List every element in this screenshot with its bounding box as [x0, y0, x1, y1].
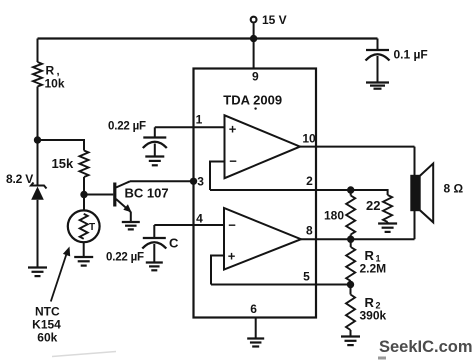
- wire node A to 15k: [38, 140, 85, 151]
- label BC 107: [125, 186, 169, 201]
- label 0.1 µF: [394, 48, 428, 62]
- label TDA 2009: [223, 93, 282, 108]
- wire node A to zener: [37, 140, 39, 186]
- svg-text:+: +: [228, 249, 236, 264]
- wire pin 5 run: [211, 284, 350, 286]
- wire top supply rail: [38, 37, 378, 39]
- label 0.22 µF bottom: [106, 252, 144, 264]
- wire pin 8 run: [301, 238, 415, 240]
- node supply junction: [250, 35, 257, 42]
- ground zener: [28, 268, 47, 277]
- wire R1 stub bottom: [350, 281, 352, 285]
- node pin 8 junction: [347, 236, 354, 243]
- svg-text:10: 10: [302, 132, 316, 146]
- svg-text:15k: 15k: [52, 156, 74, 171]
- label 8.2 V: [6, 172, 33, 186]
- arrow NTC pointer: [51, 247, 70, 302]
- svg-text:0.22 µF: 0.22 µF: [106, 252, 144, 264]
- wire C2 stem: [153, 225, 155, 238]
- transistor Q1 BC 107: [115, 181, 132, 222]
- svg-text:2.2M: 2.2M: [360, 262, 387, 276]
- label pin 10: [302, 132, 316, 146]
- resistor R3 10k: [33, 62, 42, 87]
- label 15 V: [262, 13, 287, 27]
- scan smudge bottom: [52, 352, 116, 357]
- node A junction: [34, 136, 41, 143]
- op-amp A1 triangle: [225, 115, 301, 178]
- wire rail to C4: [377, 39, 379, 50]
- wire zener to ground: [37, 200, 39, 268]
- svg-text:5: 5: [303, 270, 310, 284]
- ground C1: [145, 157, 164, 166]
- wire A2 plus feedback: [211, 256, 224, 285]
- svg-text:8: 8: [306, 224, 313, 238]
- svg-text:TDA 2009: TDA 2009: [223, 93, 282, 108]
- label 15k: [52, 156, 74, 171]
- ground 0.1 µF: [366, 83, 389, 89]
- wire C1 stem: [154, 127, 156, 137]
- label 60k: [37, 331, 57, 345]
- watermark SeekIC.com: [379, 338, 473, 356]
- wire R1 stub top: [350, 239, 352, 247]
- label 0.22 µF top: [108, 121, 146, 133]
- svg-text:3: 3: [197, 175, 204, 189]
- label R1: [365, 248, 381, 264]
- wire node B to thermistor: [83, 195, 85, 211]
- svg-text:0.22 µF: 0.22 µF: [108, 121, 146, 133]
- wire 180 stub top: [350, 190, 352, 196]
- label 22: [366, 198, 380, 213]
- wire R2 stub top: [350, 285, 352, 295]
- label NTC: [35, 305, 60, 319]
- svg-text:9: 9: [252, 70, 259, 84]
- label pin 1: [196, 113, 203, 127]
- resistor R1 2.2M: [346, 247, 355, 281]
- wire 22 stub: [387, 222, 389, 224]
- node pin 5 junction: [347, 281, 354, 288]
- wire pin 2 run: [210, 189, 388, 191]
- svg-text:8 Ω: 8 Ω: [444, 182, 464, 196]
- svg-text:NTC: NTC: [35, 305, 60, 319]
- svg-text:1: 1: [196, 113, 203, 127]
- label R2: [365, 295, 381, 311]
- wire rail corner down-left: [37, 39, 39, 63]
- wire pin 6 stem: [255, 318, 257, 339]
- label pin 8: [306, 224, 313, 238]
- label pin 6: [250, 302, 257, 316]
- label K154: [32, 318, 61, 332]
- svg-text:180: 180: [324, 209, 344, 223]
- wire R3 to node A: [37, 87, 39, 141]
- resistor 22: [383, 195, 392, 222]
- wire node B to base: [84, 194, 113, 196]
- diode D1 zener 8.2V: [31, 183, 47, 200]
- label 390k: [360, 309, 387, 323]
- wire C2 to ground: [153, 244, 155, 263]
- wire 15k to node B: [83, 177, 85, 195]
- svg-text:−: −: [229, 154, 237, 169]
- thermistor NTC T1: [68, 210, 100, 242]
- wire supply to pin 9: [253, 39, 255, 69]
- label C: [169, 236, 179, 251]
- label pin 5: [303, 270, 310, 284]
- svg-text:SeekIC.com: SeekIC.com: [379, 338, 473, 356]
- resistor 15k: [80, 151, 89, 178]
- speck under label: [254, 107, 256, 109]
- node pin 3 junction: [190, 178, 197, 185]
- ground R2: [341, 337, 360, 346]
- ground C2: [146, 263, 163, 271]
- resistor R2 390k: [346, 295, 355, 331]
- label 10k: [45, 77, 65, 91]
- node B junction: [80, 191, 87, 198]
- wire C1 to ground: [154, 144, 156, 157]
- label 180: [324, 209, 344, 223]
- wire C4 to ground: [377, 56, 379, 83]
- svg-text:0.1 µF: 0.1 µF: [394, 48, 428, 62]
- op-amp A2 triangle: [224, 208, 301, 270]
- wire A1 minus feedback: [210, 162, 225, 191]
- svg-text:R: R: [46, 64, 55, 78]
- svg-text:K154: K154: [32, 318, 61, 332]
- svg-text:2: 2: [306, 174, 313, 188]
- svg-text:15 V: 15 V: [262, 13, 287, 27]
- wire C2 to pin 4: [154, 224, 224, 226]
- wire speaker vertical: [414, 147, 416, 240]
- ground pin 6: [247, 339, 264, 347]
- terminal 15 V: [251, 17, 257, 23]
- watermark mark: [378, 357, 386, 360]
- resistor 180: [346, 196, 355, 235]
- label 8 ohm: [444, 182, 464, 196]
- wire thermistor to ground: [83, 242, 85, 257]
- svg-text:60k: 60k: [37, 331, 57, 345]
- svg-text:4: 4: [196, 212, 203, 226]
- capacitor C2 0.22 µF: [142, 238, 166, 249]
- node pin 2 junction: [347, 186, 354, 193]
- ground emitter: [122, 222, 140, 229]
- wire 180 stub bottom: [350, 235, 352, 240]
- wire 22 branch: [351, 190, 388, 195]
- wire R2 to ground: [350, 330, 352, 337]
- svg-text:390k: 390k: [360, 309, 387, 323]
- svg-text:10k: 10k: [45, 77, 65, 91]
- capacitor C1 0.22 µF: [143, 138, 167, 149]
- op-amp U1 TDA 2009 package box: [194, 69, 317, 318]
- ground thermistor: [74, 257, 93, 266]
- wire collector to pin 3: [130, 180, 194, 182]
- svg-text:8.2 V: 8.2 V: [6, 172, 33, 186]
- label pin 4: [196, 212, 203, 226]
- svg-text:+: +: [229, 122, 237, 137]
- wire pin 10 run: [300, 146, 415, 148]
- label pin 9: [252, 70, 259, 84]
- svg-text:6: 6: [250, 302, 257, 316]
- label R3: [46, 64, 60, 78]
- label pin 3: [197, 175, 204, 189]
- svg-text:C: C: [169, 236, 179, 251]
- speaker LS1 8 ohm: [410, 164, 433, 223]
- svg-text:−: −: [228, 218, 236, 233]
- wire C1 to pin 1: [155, 126, 225, 128]
- label pin 2: [306, 174, 313, 188]
- svg-text:BC 107: BC 107: [125, 186, 169, 201]
- svg-text:T: T: [89, 222, 95, 233]
- label 2.2M: [360, 262, 387, 276]
- ground 22: [378, 224, 397, 232]
- wire terminal stem: [253, 23, 255, 38]
- svg-text:22: 22: [366, 198, 380, 213]
- capacitor 0.1 µF: [366, 50, 390, 61]
